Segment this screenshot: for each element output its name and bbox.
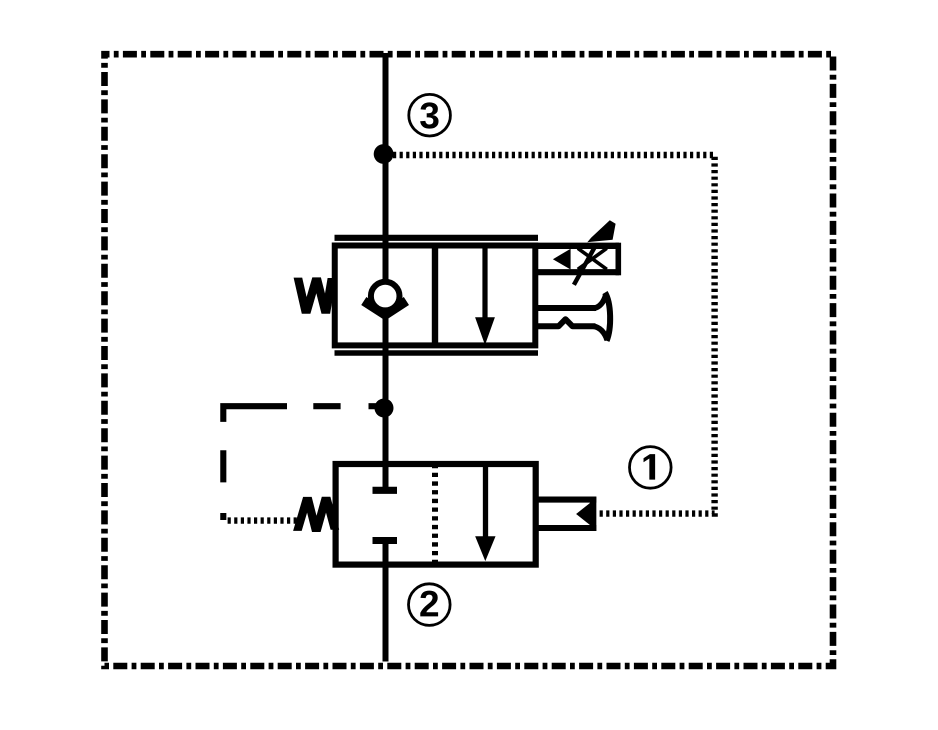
- valve U1 top rail: [335, 235, 539, 241]
- valve U1 position divider: [432, 246, 438, 346]
- flow arrow in valve U1 right cell: [476, 249, 494, 344]
- drain line (dotted) to lower valve spring: [228, 517, 298, 523]
- spring M of valve U2: [293, 497, 339, 532]
- port label 3: [409, 94, 451, 136]
- wire: main vertical line port3 to port2: [383, 53, 389, 662]
- valve U2 blocked port T top: [373, 464, 398, 490]
- pilot line (dotted) node A to right side down to port 1 stub: [393, 155, 715, 514]
- spring W of valve U1: [294, 277, 337, 313]
- pilot stub port 1: [536, 497, 596, 531]
- enclosure border (cartridge boundary, dash-dot): [105, 54, 834, 666]
- valve U2 envelope: [336, 464, 536, 565]
- flow arrow in valve U2 right cell: [476, 464, 495, 560]
- port label 2: [409, 584, 451, 626]
- pilot stub arrowhead: [576, 503, 590, 526]
- proportional solenoid U1 box: [535, 243, 619, 276]
- port label 1: [630, 447, 672, 489]
- valve U2 transition divider (dotted): [432, 464, 438, 565]
- proportional adjustment arrow (diagonal): [574, 220, 616, 285]
- check valve seat (V): [364, 301, 407, 315]
- solenoid arrowhead (left triangle): [553, 249, 571, 270]
- valve U2 blocked port T bottom: [373, 541, 398, 565]
- pilot line (dashed) node B to left and down: [223, 406, 379, 520]
- valve U1 envelope: [335, 246, 536, 346]
- manual override cone: [594, 293, 611, 341]
- valve U1 bottom rail: [335, 350, 539, 356]
- check valve ball: [371, 282, 400, 311]
- manual override stem: [538, 308, 596, 326]
- solenoid X mark: [578, 248, 607, 269]
- node A (junction at port 3 branch): [374, 144, 394, 164]
- node B (junction between valves): [375, 399, 394, 418]
